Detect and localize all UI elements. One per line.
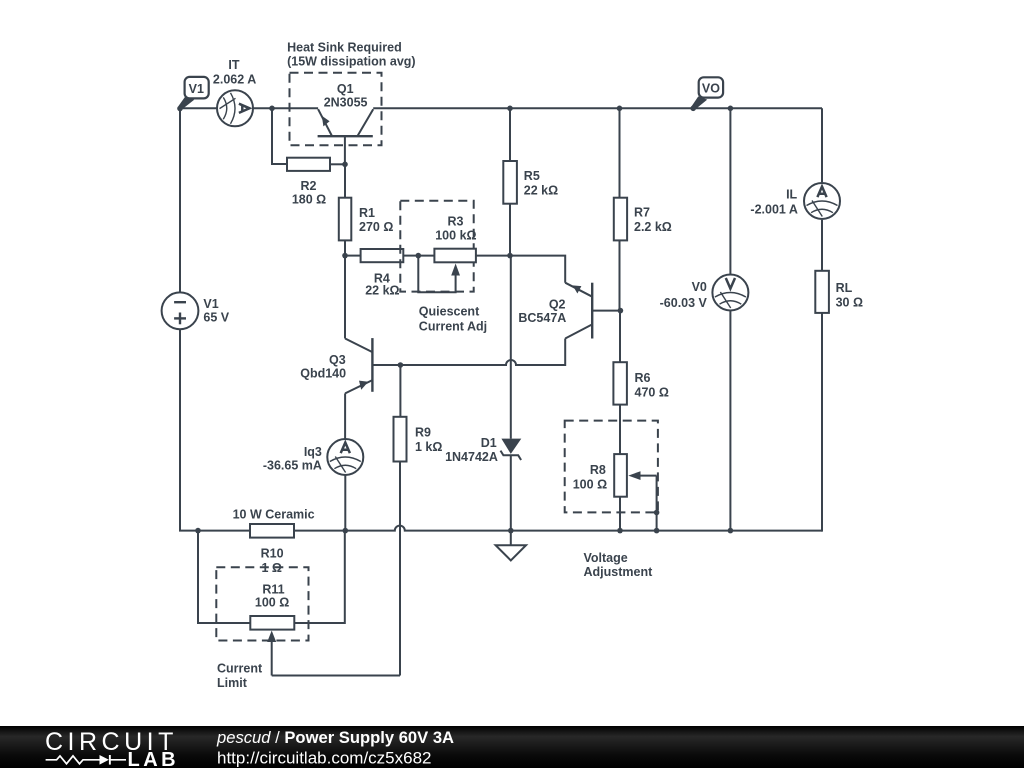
svg-text:2.2 kΩ: 2.2 kΩ xyxy=(634,220,672,234)
annotation quiescent xyxy=(419,305,487,334)
svg-text:R9: R9 xyxy=(415,426,431,440)
label IT xyxy=(213,58,256,86)
footer title xyxy=(216,728,454,768)
svg-text:Q2: Q2 xyxy=(549,298,566,312)
svg-text:-36.65 mA: -36.65 mA xyxy=(263,459,322,473)
node V0 bottom xyxy=(728,528,734,534)
svg-text:V1: V1 xyxy=(189,82,204,96)
svg-text:IT: IT xyxy=(228,58,239,72)
svg-text:Iq3: Iq3 xyxy=(304,445,322,459)
node D1 bottom xyxy=(508,528,514,534)
wire Q1 base drop xyxy=(272,108,287,164)
resistor R11 branch xyxy=(198,531,345,630)
node R8 bottom xyxy=(617,528,623,534)
node Q2 base R7 R6 xyxy=(618,308,624,314)
dashed box R11 xyxy=(216,567,308,640)
svg-text:R1: R1 xyxy=(359,206,375,220)
svg-text:R6: R6 xyxy=(635,371,651,385)
label Q2 xyxy=(518,298,566,325)
flag VO xyxy=(692,77,724,110)
dashed box R3 xyxy=(400,201,473,292)
svg-text:V0: V0 xyxy=(692,280,707,294)
heat sink dashed box xyxy=(290,73,382,146)
svg-text:Adjustment: Adjustment xyxy=(584,565,654,579)
svg-text:-60.03 V: -60.03 V xyxy=(660,296,708,310)
svg-text:Q1: Q1 xyxy=(337,82,354,96)
svg-text:R10: R10 xyxy=(261,547,284,561)
annotation heat sink xyxy=(287,40,416,68)
svg-text:2N3055: 2N3055 xyxy=(324,96,368,110)
source V1 xyxy=(162,292,199,329)
label IL xyxy=(750,188,797,217)
svg-text:100 Ω: 100 Ω xyxy=(573,477,607,491)
svg-text:pescud / Power Supply 60V 3A: pescud / Power Supply 60V 3A xyxy=(216,728,454,747)
label RL xyxy=(836,281,863,309)
wire Q2 collector to Q3 base xyxy=(372,339,565,366)
ammeter IL xyxy=(804,183,840,219)
svg-text:1 kΩ: 1 kΩ xyxy=(415,440,442,454)
svg-text:BC547A: BC547A xyxy=(518,311,566,325)
potentiometer R11 wiper xyxy=(267,631,400,676)
svg-text:R11: R11 xyxy=(262,582,284,596)
svg-text:100 Ω: 100 Ω xyxy=(255,595,289,609)
wire right rail xyxy=(821,108,823,531)
svg-text:Qbd140: Qbd140 xyxy=(300,367,346,381)
resistor R4 xyxy=(345,249,418,262)
svg-text:V1: V1 xyxy=(203,297,218,311)
svg-text:180 Ω: 180 Ω xyxy=(292,192,326,206)
resistor RL xyxy=(815,271,829,313)
transistor Q3 xyxy=(345,338,372,393)
resistor R2 xyxy=(287,158,345,171)
node R8 wiper xyxy=(654,510,660,516)
resistor R1 xyxy=(339,198,352,241)
svg-text:Quiescent: Quiescent xyxy=(419,305,480,319)
node R1-R4 xyxy=(342,253,348,259)
wire Iq3 bottom xyxy=(344,475,346,530)
svg-text:R5: R5 xyxy=(524,169,540,183)
svg-text:1N4742A: 1N4742A xyxy=(445,450,498,464)
wire left rail xyxy=(180,108,250,531)
svg-text:R8: R8 xyxy=(590,463,606,477)
svg-text:Limit: Limit xyxy=(217,676,248,690)
label 10W ceramic xyxy=(233,508,315,522)
node bottom left xyxy=(195,528,201,534)
node top R5 xyxy=(507,106,513,112)
resistor R6 xyxy=(613,311,627,455)
zener D1 xyxy=(501,256,522,531)
node N1 xyxy=(269,106,275,112)
ground xyxy=(496,531,526,561)
svg-text:Current: Current xyxy=(217,662,263,676)
svg-text:D1: D1 xyxy=(481,436,497,450)
node R3-R5 xyxy=(507,253,513,259)
node input xyxy=(177,106,183,112)
wire bottom rail xyxy=(294,526,822,531)
footer bar xyxy=(0,726,1024,768)
node R4-R3 xyxy=(416,253,422,259)
transistor Q1 xyxy=(318,109,374,164)
svg-text:470 Ω: 470 Ω xyxy=(635,386,669,400)
resistor R5 xyxy=(503,108,517,255)
svg-text:R2: R2 xyxy=(301,179,317,193)
label R3 xyxy=(435,214,476,242)
svg-text:10 W Ceramic: 10 W Ceramic xyxy=(233,508,315,522)
svg-text:Current Adj: Current Adj xyxy=(419,319,487,333)
svg-text:-2.001 A: -2.001 A xyxy=(750,202,797,216)
svg-text:100 kΩ: 100 kΩ xyxy=(435,229,476,243)
resistor R10 xyxy=(250,524,294,538)
svg-text:Heat Sink Required: Heat Sink Required xyxy=(287,40,402,54)
logo circuitlab xyxy=(45,728,179,768)
svg-text:LAB: LAB xyxy=(128,749,180,768)
svg-text:RL: RL xyxy=(836,281,853,295)
label R9 xyxy=(415,426,442,454)
label R4 xyxy=(365,272,399,298)
label R1 xyxy=(359,206,393,234)
voltmeter V0 xyxy=(729,108,731,530)
svg-text:R7: R7 xyxy=(634,206,650,220)
label R6 xyxy=(635,371,669,400)
node Iq3 bottom xyxy=(343,528,349,534)
node top R7 xyxy=(617,106,623,112)
resistor R7 xyxy=(614,108,627,310)
svg-text:R3: R3 xyxy=(448,214,464,228)
label Q1 xyxy=(324,82,368,110)
flag V1 xyxy=(178,77,208,110)
transistor Q2 xyxy=(565,283,620,339)
ammeter IT xyxy=(217,90,253,126)
svg-text:270 Ω: 270 Ω xyxy=(359,220,393,234)
label R5 xyxy=(524,169,558,198)
node V0 branch xyxy=(728,106,734,112)
annotation voltage adjustment xyxy=(584,551,654,579)
label V0 xyxy=(660,280,708,310)
label R2 xyxy=(292,179,326,207)
svg-text:2.062 A: 2.062 A xyxy=(213,72,256,86)
svg-text:VO: VO xyxy=(702,82,720,96)
node wiper bottom xyxy=(654,528,660,534)
wire top rail xyxy=(180,107,822,109)
label Iq3 xyxy=(263,445,322,473)
svg-text:Q3: Q3 xyxy=(329,353,346,367)
svg-text:IL: IL xyxy=(786,188,797,202)
label R10 xyxy=(261,547,284,575)
svg-text:22 kΩ: 22 kΩ xyxy=(365,284,399,298)
svg-text:22 kΩ: 22 kΩ xyxy=(524,184,558,198)
node Q3 base R9 xyxy=(398,362,404,368)
svg-text:65 V: 65 V xyxy=(203,310,229,324)
label V1 xyxy=(203,297,229,324)
node R2-R1 xyxy=(342,162,348,168)
potentiometer R8 xyxy=(614,454,656,530)
wire base chain xyxy=(344,164,346,338)
wire to Q2 emitter xyxy=(510,256,565,283)
wire Q3 emitter xyxy=(344,393,346,438)
resistor R9 xyxy=(394,365,407,676)
potentiometer R3 xyxy=(418,249,510,293)
svg-text:(15W dissipation avg): (15W dissipation avg) xyxy=(287,55,416,69)
label R11 xyxy=(255,582,289,609)
svg-text:30 Ω: 30 Ω xyxy=(836,295,863,309)
ammeter Iq3 xyxy=(327,439,363,475)
label R7 xyxy=(634,206,672,235)
label D1 xyxy=(445,436,498,464)
dashed box R8 xyxy=(565,421,658,513)
label Q3 xyxy=(300,353,346,381)
svg-text:http://circuitlab.com/cz5x682: http://circuitlab.com/cz5x682 xyxy=(217,748,431,767)
label R8 xyxy=(573,463,607,492)
svg-text:Voltage: Voltage xyxy=(584,551,628,565)
annotation current limit xyxy=(217,662,263,691)
node VO xyxy=(690,106,696,112)
